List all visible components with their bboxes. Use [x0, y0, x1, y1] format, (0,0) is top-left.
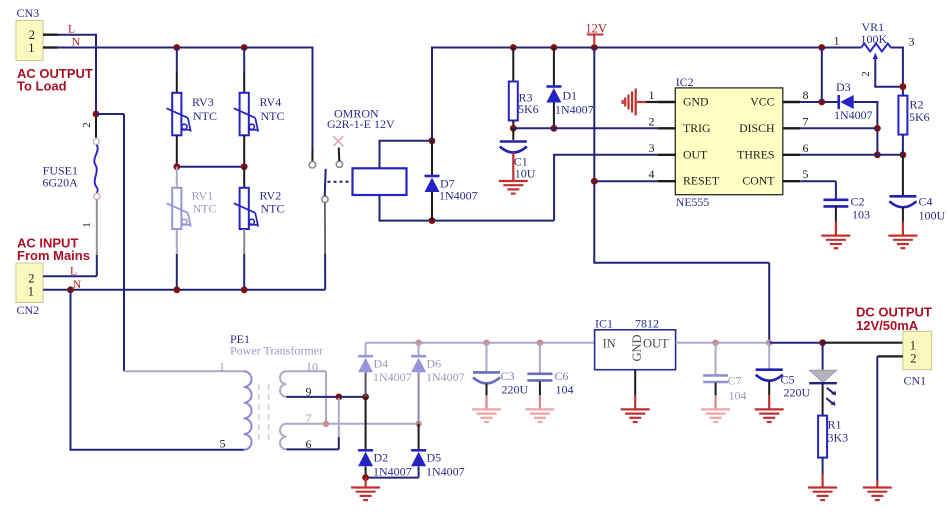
svg-text:RESET: RESET: [683, 174, 720, 188]
ground C7 (faded): [701, 409, 730, 422]
node DISCH: [874, 125, 881, 132]
svg-text:N: N: [73, 277, 82, 291]
svg-text:G2R-1-E 12V: G2R-1-E 12V: [327, 117, 395, 131]
node pin10-7 tie: [323, 421, 329, 427]
wire pin9: [286, 396, 338, 398]
wire R2 bottom: [902, 135, 904, 155]
wire TRIG net: [513, 127, 658, 129]
op-amp timer IC2 NE555 body: [675, 88, 783, 195]
svg-text:7812: 7812: [635, 317, 659, 331]
svg-text:RV4: RV4: [260, 95, 282, 109]
svg-text:D3: D3: [836, 80, 851, 94]
connector CN2: [16, 263, 43, 303]
svg-text:1N4007: 1N4007: [555, 103, 594, 117]
capacitor C2 103: [823, 199, 848, 202]
node D7 top: [429, 137, 436, 144]
svg-text:1N4007: 1N4007: [373, 465, 412, 479]
node R3 top: [510, 44, 517, 51]
svg-text:2: 2: [649, 114, 655, 128]
wire relay coil bottom: [379, 195, 381, 221]
wire R1 to ground: [822, 458, 824, 474]
node C6 top: [537, 340, 543, 346]
node VR1 pin1: [818, 44, 825, 51]
wire 12V top rail: [432, 47, 861, 49]
wire THRES to C4: [902, 155, 904, 196]
svg-text:To Load: To Load: [17, 79, 67, 94]
wire pin6: [286, 448, 338, 450]
svg-text:D2: D2: [374, 451, 389, 465]
connector CN3: [16, 21, 43, 61]
svg-text:5K6: 5K6: [518, 102, 539, 116]
svg-text:D1: D1: [563, 89, 578, 103]
svg-text:IN: IN: [603, 337, 616, 351]
VR1 wiper arrow: [873, 53, 878, 60]
node fuse top: [93, 111, 100, 118]
pin stubs IC2 left: [658, 101, 675, 103]
svg-text:2: 2: [28, 272, 34, 286]
wire 12V rail drop to relay: [431, 47, 433, 141]
resistor R3 5K6: [512, 48, 514, 82]
wire LED to R1: [822, 383, 824, 415]
svg-text:10U: 10U: [515, 167, 536, 181]
ground C1: [499, 181, 528, 194]
svg-text:D4: D4: [374, 357, 389, 371]
svg-text:D6: D6: [427, 357, 442, 371]
wire D5 to D2 bottom: [366, 477, 419, 479]
svg-text:From Mains: From Mains: [17, 248, 90, 263]
svg-text:C3: C3: [501, 369, 515, 383]
diode D2 1N4007: [365, 397, 367, 450]
svg-text:CN3: CN3: [17, 6, 40, 20]
capacitor C4 100U: [889, 195, 916, 198]
svg-text:100U: 100U: [919, 209, 946, 223]
svg-text:1N4007: 1N4007: [373, 370, 412, 384]
svg-text:1N4007: 1N4007: [426, 465, 465, 479]
wire RESET net: [594, 180, 658, 182]
wire node to x124 riser: [96, 113, 124, 115]
svg-text:104: 104: [556, 383, 574, 397]
svg-text:6G20A: 6G20A: [42, 175, 78, 189]
wire 12V over to DC rail: [593, 262, 769, 264]
svg-text:3: 3: [909, 35, 915, 49]
transformer PE1 primary winding: [244, 371, 252, 450]
pin 1 stub of CN3: [43, 46, 58, 48]
relay contact armature: [325, 169, 326, 196]
wire N rail drop to relay contact: [312, 47, 314, 149]
svg-text:1: 1: [219, 360, 225, 374]
svg-text:IC1: IC1: [595, 317, 613, 331]
wire OUT net: [554, 154, 658, 156]
node RV4 top: [241, 44, 248, 51]
wire DC rail to CN1: [823, 342, 903, 344]
wire pin10 (faded): [286, 370, 326, 372]
fuse FUSE1 6G20A: [95, 117, 97, 139]
svg-text:6: 6: [803, 141, 809, 155]
wire CN2 pin1 N rail bottom: [43, 289, 325, 291]
svg-text:1N4007: 1N4007: [439, 189, 478, 203]
svg-text:2: 2: [81, 122, 93, 128]
svg-text:2: 2: [860, 71, 872, 77]
svg-text:1N4007: 1N4007: [834, 108, 873, 122]
svg-text:3K3: 3K3: [828, 431, 849, 445]
diode D7 1N4007: [431, 141, 433, 175]
wire CN2 pin2 L to fuse bottom: [43, 275, 97, 277]
svg-text:RV3: RV3: [192, 95, 214, 109]
wire RV3 top stub: [176, 48, 178, 73]
capacitor C6 104 (faded): [539, 343, 541, 374]
node RV1 top: [173, 163, 180, 170]
svg-text:VCC: VCC: [750, 94, 774, 108]
node rectifier ground: [362, 474, 369, 481]
LED indicator: [822, 343, 824, 370]
diode D6 1N4007 (faded): [415, 340, 421, 346]
node pin7 to rectifier: [415, 421, 421, 427]
diode D3 1N4007: [837, 95, 840, 109]
node 12V supply: [591, 44, 598, 51]
wire pin7 line (faded): [286, 423, 418, 425]
node rectifier left: [362, 394, 369, 401]
node pin9 tie: [335, 394, 342, 401]
svg-text:RV1: RV1: [192, 189, 214, 203]
ground C5: [755, 409, 784, 422]
svg-text:NE555: NE555: [676, 195, 710, 209]
ground CN1 pin2: [863, 488, 892, 501]
svg-text:C6: C6: [555, 369, 569, 383]
node R2 top: [900, 83, 907, 90]
svg-text:GND: GND: [630, 334, 644, 361]
thermistor RV3 NTC: [172, 93, 181, 136]
diode D4 1N4007 (faded): [365, 343, 367, 356]
node C7 top: [712, 340, 718, 346]
svg-text:103: 103: [852, 208, 870, 222]
wire C2 to ground: [835, 206, 837, 221]
svg-text:R1: R1: [828, 418, 842, 432]
wire RV1 bottom: [176, 229, 178, 254]
ground C3 (faded): [472, 409, 501, 422]
svg-text:THRES: THRES: [737, 147, 774, 161]
svg-text:1: 1: [81, 222, 93, 228]
wire THRES net: [800, 154, 903, 156]
wire VR1 pin1 drop: [821, 48, 823, 103]
capacitor C7 104 (faded): [715, 343, 717, 375]
connector CN1: [903, 332, 932, 370]
svg-text:C7: C7: [728, 374, 742, 388]
wire CN3 pin1 N rail: [56, 47, 313, 49]
wire CN3 pin2 to fuse node: [56, 34, 96, 36]
svg-text:C4: C4: [919, 195, 933, 209]
node D1 bottom TRIG: [551, 125, 558, 132]
regulator IC1 7812 body: [595, 330, 676, 370]
node THRES junction1: [874, 151, 881, 158]
pin 2 stub of CN3: [43, 34, 58, 36]
ground C4: [888, 236, 917, 249]
svg-text:Power Transformer: Power Transformer: [230, 344, 323, 358]
wire CONT to C2: [800, 180, 836, 182]
svg-text:CONT: CONT: [742, 174, 775, 188]
wire pin9 to rectifier: [339, 396, 366, 398]
svg-text:220U: 220U: [784, 386, 811, 400]
resistor R1 3K3: [818, 416, 827, 458]
capacitor C5 220U: [768, 343, 770, 369]
svg-text:8: 8: [803, 88, 809, 102]
svg-text:IC2: IC2: [676, 75, 694, 89]
wire VR1 pin3 down: [891, 47, 903, 49]
wire left drop to transformer pin5: [70, 290, 72, 450]
relay coil K1: [353, 168, 407, 195]
svg-text:12V/50mA: 12V/50mA: [856, 318, 919, 333]
wire mid tie RV3-RV4: [177, 166, 244, 168]
node RESET: [591, 178, 598, 185]
thermistor RV1 NTC (faded): [172, 188, 181, 229]
wire RV1 top stub: [176, 167, 178, 188]
node D1 top: [551, 44, 558, 51]
svg-text:1: 1: [910, 339, 916, 353]
svg-text:RV2: RV2: [260, 189, 282, 203]
wire VCC to D3: [800, 101, 838, 103]
svg-text:7: 7: [803, 114, 809, 128]
svg-text:1: 1: [649, 88, 655, 102]
ground at IC2 pin1 (sideways): [645, 101, 658, 103]
svg-text:5: 5: [803, 167, 809, 181]
relay NC terminal X mark: [333, 136, 343, 146]
svg-text:12V: 12V: [585, 21, 607, 35]
wire DC rail left (faded): [366, 342, 595, 344]
wire RV2 bottom: [243, 229, 245, 254]
svg-text:NTC: NTC: [193, 202, 217, 216]
node RV3 top: [173, 44, 180, 51]
svg-text:TRIG: TRIG: [683, 121, 711, 135]
ground R1: [808, 488, 837, 501]
svg-text:OUT: OUT: [643, 337, 669, 351]
relay contact terminal circles: [309, 162, 315, 168]
svg-text:DISCH: DISCH: [739, 121, 775, 135]
svg-text:D5: D5: [427, 451, 442, 465]
svg-text:5K6: 5K6: [909, 110, 930, 124]
svg-text:1: 1: [28, 41, 34, 55]
wire DISCH net: [800, 127, 877, 129]
node RV1 bottom: [173, 286, 180, 293]
svg-text:104: 104: [729, 389, 747, 403]
svg-text:1N4007: 1N4007: [426, 370, 465, 384]
wire RV3 bottom: [176, 135, 178, 166]
resistor R2 5K6: [898, 96, 907, 135]
ground C6 (faded): [525, 409, 554, 422]
wire pin6 riser to pin9: [338, 437, 340, 449]
thermistor RV2 NTC: [240, 188, 249, 229]
node C5 top: [766, 340, 772, 346]
svg-text:3: 3: [649, 141, 655, 155]
diode D5 1N4007: [418, 424, 420, 450]
svg-text:C5: C5: [781, 373, 795, 387]
wire DC rail right of IC1 (faded): [676, 342, 770, 344]
node VCC: [818, 99, 825, 106]
ground C2: [821, 236, 850, 249]
wire IC1 GND to ground: [634, 370, 636, 396]
wire C1 to ground: [512, 153, 514, 182]
diode D1 1N4007: [553, 48, 555, 87]
svg-text:N: N: [72, 35, 81, 49]
node D7 bottom: [429, 217, 436, 224]
transformer PE1 secondary winding top: [280, 371, 286, 397]
node C3 top: [483, 340, 489, 346]
svg-text:4: 4: [649, 167, 655, 181]
transformer PE1 secondary winding bottom: [280, 424, 286, 450]
wire relay coil top: [379, 141, 381, 169]
svg-text:L: L: [68, 22, 75, 36]
ground rectifier: [351, 488, 380, 501]
LED arrows: [827, 388, 834, 394]
node LED top: [819, 339, 826, 346]
svg-text:OUT: OUT: [683, 147, 708, 161]
node N-rail to transformer: [67, 286, 74, 293]
wire RV2 top stub: [243, 167, 245, 188]
ground IC1: [621, 409, 650, 422]
svg-text:NTC: NTC: [261, 202, 285, 216]
svg-text:GND: GND: [683, 94, 709, 108]
svg-text:CN2: CN2: [17, 303, 40, 317]
wire 12V drop to RESET: [593, 48, 595, 263]
transformer core dashed: [258, 384, 260, 440]
relay contact COM wire down: [324, 203, 326, 255]
thermistor RV4 NTC: [240, 93, 249, 136]
wire RV4 top stub: [243, 48, 245, 73]
svg-text:5: 5: [220, 437, 226, 451]
svg-text:2: 2: [29, 28, 35, 42]
node THRES junction2: [900, 151, 907, 158]
node R3 bottom TRIG: [510, 125, 517, 132]
wire D3 anode over and down to DISCH: [854, 101, 878, 103]
svg-text:2: 2: [910, 352, 916, 366]
wire RV4 bottom: [243, 135, 245, 166]
node RV2 bottom: [241, 286, 248, 293]
capacitor C1 10U: [512, 128, 514, 140]
svg-text:CN1: CN1: [904, 374, 927, 388]
relay actuator dashed link: [328, 181, 353, 183]
wire C4 to ground: [902, 207, 904, 221]
node RV2 top: [241, 163, 248, 170]
wire rectifier to ground: [365, 478, 367, 488]
wire DC rail 12V section: [769, 342, 822, 344]
pin stubs IC2 right: [783, 101, 800, 103]
svg-text:220U: 220U: [502, 383, 529, 397]
wire to primary pin1 (faded): [124, 370, 244, 372]
wire CN1 pin2 to ground: [877, 355, 903, 357]
svg-text:NTC: NTC: [193, 109, 217, 123]
svg-text:1: 1: [834, 34, 840, 48]
svg-text:NTC: NTC: [261, 109, 285, 123]
svg-text:C2: C2: [851, 195, 865, 209]
capacitor C3 220U (faded): [486, 343, 488, 372]
wire riser x124 down to transformer: [123, 114, 125, 371]
svg-text:1: 1: [28, 285, 34, 299]
